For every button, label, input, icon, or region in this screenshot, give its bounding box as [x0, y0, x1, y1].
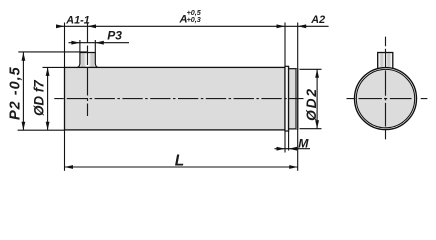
extension line boss top (left, for P2) [18, 51, 87, 53]
arrow right at x=64.5 [56, 24, 65, 28]
extension line body top-left (for ØD f7) [43, 66, 65, 68]
extension line body end x=285 (down to M) [284, 131, 286, 153]
svg-text:A1-1: A1-1 [65, 15, 89, 27]
extension line body end x=285 (up) [284, 23, 286, 67]
extension line collar bottom (right, for ØD2) [300, 128, 322, 130]
svg-text:P3: P3 [107, 29, 122, 43]
svg-text:P2 -0,5: P2 -0,5 [8, 66, 24, 120]
end collar ØD2 [289, 69, 298, 129]
svg-text:M: M [298, 136, 309, 150]
svg-text:+0,3: +0,3 [187, 15, 201, 24]
dimension line P2-0.5 (vertical) [22, 52, 24, 130]
dimension line L [65, 166, 298, 168]
chamfer strip on end collar [296, 69, 298, 129]
end view outer circle [355, 68, 417, 130]
svg-text:ØD2: ØD2 [304, 87, 319, 121]
end view vertical centerline [385, 37, 387, 140]
horizontal centerline of side view [54, 98, 303, 100]
boss P3 on top of body (side view) [77, 53, 98, 68]
arrow left at x=87.5 [88, 24, 97, 28]
extension line ring right x=288.6 (down to M) [288, 131, 290, 151]
end view horizontal centerline [347, 98, 428, 100]
retaining ring (width M) at right end [285, 66, 289, 131]
dimension line A1-1 / A / A2 (top row) [57, 25, 329, 27]
end view boss (behind circle) [378, 53, 393, 78]
arrow left at x=297.7 [298, 24, 307, 28]
extension line end face x=297.7 (up) [297, 23, 299, 69]
svg-text:A2: A2 [310, 14, 325, 26]
vertical centerline of boss / A1-1 extension [87, 23, 89, 117]
chamfer line [295, 69, 297, 129]
extension line left face (up) [64, 23, 66, 68]
main cylinder body (ØD f7) [65, 67, 286, 129]
dimension line M [275, 148, 311, 150]
extension lines of boss sides (for P3) [79, 40, 81, 53]
dimension line P3 [69, 42, 130, 44]
extension line body bottom-left (for P2 and ØD f7) [18, 129, 65, 131]
extension line left face (down to L) [64, 130, 66, 171]
dimension line ØD f7 (vertical) [47, 67, 49, 130]
extension line end face x=297.7 (down to L) [297, 129, 299, 171]
extension line collar top (right, for ØD2) [300, 68, 322, 70]
svg-text:ØD f7: ØD f7 [31, 80, 46, 116]
arrow right at x=285 [277, 24, 286, 28]
end view inner circle (ØD2 face) [356, 69, 414, 127]
svg-text:L: L [175, 153, 184, 170]
dimension line ØD2 (vertical) [316, 69, 318, 128]
